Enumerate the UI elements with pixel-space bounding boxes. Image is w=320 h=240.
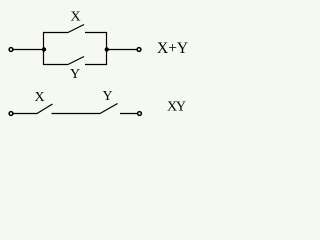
- wire bottom rail left: [43, 64, 68, 66]
- wire right vertical branch: [106, 33, 108, 65]
- switch X blade (series): [37, 104, 53, 114]
- wire top rail left: [43, 32, 68, 34]
- svg-text:X+Y: X+Y: [157, 40, 188, 57]
- switch X blade (top branch): [68, 25, 84, 33]
- switch Y blade (bottom branch): [68, 57, 84, 65]
- svg-text:X: X: [70, 10, 80, 25]
- terminal right (output): [137, 48, 141, 52]
- svg-text:X: X: [34, 90, 44, 105]
- wire input to left junction: [14, 49, 45, 51]
- svg-text:Y: Y: [102, 89, 112, 104]
- node left junction: [42, 47, 46, 51]
- wire switch X to switch Y: [52, 113, 101, 115]
- terminal right (output): [138, 112, 142, 116]
- wire right junction to output: [107, 49, 137, 51]
- terminal left (input): [9, 112, 13, 116]
- wire bottom rail right: [85, 64, 107, 66]
- wire left vertical branch: [43, 33, 45, 65]
- terminal left (input): [9, 48, 13, 52]
- svg-text:Y: Y: [70, 67, 80, 82]
- wire input to switch X: [14, 113, 38, 115]
- switch Y blade (series): [100, 104, 118, 114]
- svg-text:XY: XY: [167, 100, 186, 115]
- node right junction: [105, 47, 109, 51]
- wire switch Y to output: [120, 113, 137, 115]
- wire top rail right: [85, 32, 107, 34]
